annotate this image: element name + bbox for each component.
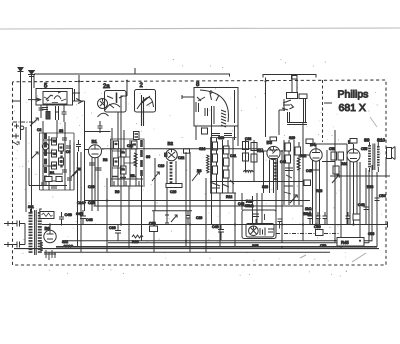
wire x112 up [111,128,113,138]
trimmer cap under unit 5 [42,105,48,111]
nested frame right [368,170,370,243]
svg-text:C40: C40 [212,225,219,229]
B5 top lead [353,144,355,149]
volume pot R21 [165,215,177,223]
aerial drop x79 [76,75,82,104]
oscillator coil frame [167,161,176,187]
svg-text:S13: S13 [218,136,224,140]
tube B3 envelope [267,146,280,159]
lamp box on transformer [40,212,54,219]
bandfilter rail a [42,132,44,190]
coil unit 5 inner box [43,92,67,105]
output transformer primary winding [368,145,371,168]
power transformer primary winding [29,212,33,253]
IF1 bottom dark caps [112,177,136,178]
IF1 cluster rail c [123,140,125,186]
misc component value labels [28,128,374,248]
box C51 [316,230,324,236]
magic eye box [242,210,276,239]
IF1 dark bars [115,144,137,170]
signal line y148.5 [102,148,263,150]
eye upper components [253,214,265,223]
cathode bar unit 2 [142,95,144,126]
AF cluster rail c [293,140,295,205]
svg-text:C6: C6 [66,150,70,154]
trimmer arc in unit 5 [54,92,61,100]
svg-text:C39: C39 [196,216,202,220]
switch cross unit 8 [197,90,213,101]
oscillator drum circle [166,149,178,161]
IF1 cluster rail d [129,140,131,186]
svg-text:C53: C53 [320,244,326,248]
grid bars unit 8 [196,102,208,116]
svg-text:C16: C16 [88,185,94,189]
wire x262 [261,193,263,224]
IF2 top caps [212,134,232,136]
svg-text:40kΩ: 40kΩ [245,204,254,208]
cap pair bottom bandfilter [41,183,57,188]
wire x65 up [64,122,66,138]
svg-text:C11: C11 [127,144,133,148]
rectifier tube B6 envelope [44,230,56,242]
power transformer secondary winding [38,212,42,253]
IF link line y181.5 [211,181,311,183]
bus HT y224.5 [42,222,388,228]
coil unit 2 outline [135,90,156,113]
svg-text:C33: C33 [245,137,251,141]
wire from unit 5 left [28,98,41,101]
tube B4 envelope [310,149,322,161]
svg-text:S25: S25 [252,244,258,248]
wire eye top lead [265,78,267,138]
svg-text:C54: C54 [379,194,386,198]
svg-text:B1: B1 [92,139,98,144]
IF2 cluster rail e [232,138,234,193]
coil unit 5 outer box [36,89,73,106]
osc rail right2 [185,152,187,206]
mains link bracket [24,224,26,245]
speaker terminal box [292,76,298,80]
trimmer arrow x76 [73,168,80,176]
tube B3 electrodes [269,146,279,159]
AF component boxes [285,143,301,163]
cap C48 [364,202,369,216]
IF2 can top [211,138,237,194]
cap C9 [76,140,81,152]
wire x377b [376,172,378,247]
tube B1 electrodes [91,145,100,154]
diode glyphs detector [282,99,294,111]
bandfilter mid coil dark [60,151,62,168]
coupling rail2 [340,160,342,190]
svg-text:C48: C48 [358,203,365,207]
svg-text:C56: C56 [368,232,374,236]
electrolytic C17 [80,210,86,225]
bus screen y240.7 [64,165,372,241]
wire x57 up [56,120,58,138]
chassis dashed border [13,80,387,265]
AF unit box [279,110,285,135]
wire x335b [334,190,336,241]
resistor R45 box [337,238,364,247]
bandfilter can bottom [40,189,75,191]
wire x190b [189,211,191,252]
IF2 component boxes [213,142,230,178]
osc rail left [154,158,156,211]
svg-text:2a: 2a [103,84,110,90]
svg-text:C47: C47 [306,169,312,173]
wire x107 [106,178,108,252]
tuning cap C1 circle [42,143,48,149]
switch contacts k2 [14,124,24,130]
bandfilter rail d [69,140,71,190]
wire x366 [365,168,367,225]
wire x360 [359,162,361,241]
resistor R20 zigzag [132,235,143,238]
wire x211 drop [211,193,213,225]
coupling trimmer arrow [332,175,339,183]
dash-dot linkage to eye [276,233,340,235]
wire x220 drop [219,193,221,247]
svg-text:681 X: 681 X [339,102,366,114]
bandfilter rail c [64,138,66,190]
AF zigzag resistor R27 [297,158,300,170]
small box C65 [350,139,357,144]
lamp box zigzag [42,213,53,217]
svg-text:R6: R6 [115,190,119,194]
mains plug lower terminal [4,242,25,248]
detector coupling cap C62 [287,93,298,99]
wire x252.5 [252,196,254,224]
bus heater y252.3 [44,251,330,253]
AF volume pot arrow [290,195,297,203]
wire x43 up [42,121,44,132]
cap C10 [98,121,103,133]
wire y210.8 [152,210,192,212]
wire drop x297 [296,75,298,93]
IF2 cluster rail d [227,140,229,193]
osc grid box [184,149,190,153]
IF2 bottom glyphs [210,180,236,193]
label row boxes under bandfilter [45,177,62,182]
svg-text:C19: C19 [158,164,164,168]
svg-text:C49: C49 [65,212,73,217]
wire: aerial coupling lead [33,74,35,88]
wire x235 [234,193,236,247]
bandfilter cap ticks [62,138,72,180]
tube 2a wedge [100,99,105,107]
svg-text:C55: C55 [361,147,367,151]
svg-text:S18: S18 [262,185,268,189]
padder capacitor under unit 5 [39,105,44,118]
svg-text:C36: C36 [109,226,116,230]
svg-text:R5: R5 [130,174,134,178]
coupling box bar [135,134,139,137]
tube B4 electrodes [312,149,320,158]
wire x341b [340,190,342,247]
svg-text:C15: C15 [88,201,95,205]
AF small box right [304,180,311,186]
coupling box above IF1 [134,132,140,140]
coil S17 scallops [244,171,254,173]
bus y242.7 [108,242,369,244]
padder box under osc [166,184,182,188]
svg-text:S6: S6 [146,155,150,159]
AF unit bars [288,112,290,123]
smoothing choke S12 [64,245,74,247]
coil S1 under unit 5 [46,112,50,120]
antenna A2 head [29,71,35,75]
grid cap lead B1 [85,132,89,212]
wire x141.5 [141,176,143,241]
wire x242 [241,193,243,210]
cap C36 [115,225,121,242]
bandfilter rail b [48,136,50,190]
speaker [387,147,396,160]
bus ground heavy [56,246,377,248]
cap C3 under unit 5 [62,105,67,122]
wire x196 [195,126,197,140]
heater comb [44,250,56,260]
coil hatch unit 8 [221,110,226,127]
wire x77.5 [77,152,79,247]
wire x238 drop [237,126,239,146]
wire x257 [256,193,258,224]
small box C64 [306,139,313,144]
coupling cluster boxes [331,152,344,174]
rail x245 [245,140,247,172]
oscillator drum hub [168,149,175,158]
svg-text:R3: R3 [103,158,107,162]
trimmer boxes column [52,138,64,169]
svg-text:R38: R38 [367,185,373,189]
bandfilter can outline [40,133,75,190]
band switch arrow mid [31,152,38,159]
mains plug upper terminal [4,221,25,227]
oscillator unit 8 outer box [194,88,238,127]
screen lead B1 [102,148,105,150]
svg-text:S19: S19 [289,136,295,140]
extra switch glyphs unit 5 [44,97,66,103]
svg-text:S3: S3 [59,129,63,133]
wire x303 [302,122,304,241]
box under unit 8 [202,128,208,134]
svg-text:R45: R45 [341,240,349,245]
unit 8 inner right edge [234,90,236,123]
IF1 bottom bars [111,179,143,186]
bandfilter extra dark bars [53,142,63,166]
tube top-view arc unit 8 [200,90,228,122]
svg-text:C41: C41 [280,160,286,164]
tube B5 envelope [347,149,360,162]
bus AVC2 y206 [94,205,304,207]
cap C40 [218,225,224,241]
AF cluster rail b [288,140,290,205]
rail x254 [253,140,255,182]
osc resistor zigzag [207,155,210,173]
wire x186b [185,206,187,247]
right link wire [330,159,390,176]
AF top right box [299,94,307,99]
bandfilter coil S2 dark column [44,133,47,180]
IF1 dark coil [140,140,143,176]
svg-text:S10: S10 [377,138,386,143]
svg-text:S9: S9 [364,138,370,143]
junction dots [32,201,361,247]
rectifier top lead [49,225,51,231]
IF1 mid links [112,151,136,168]
svg-text:R22: R22 [300,154,306,158]
eye inner box [246,224,274,238]
svg-text:C26: C26 [170,190,176,194]
svg-text:C45: C45 [76,212,83,216]
svg-text:R12: R12 [226,195,232,199]
tube 2a base arc [98,113,109,117]
right short links [310,162,335,171]
wire x81 [80,152,82,252]
filament winding [40,242,43,252]
svg-text:R31: R31 [341,162,347,166]
tube B5 electrodes [349,149,358,159]
B1 cathode caps [89,163,102,170]
tube B4 pins [313,160,320,225]
column boxes left of B3 [243,142,258,163]
IF1 can outline [111,139,145,187]
IF1 cluster rail b [117,138,119,186]
trimmer arrow C23 [152,172,159,181]
svg-text:1kΩ: 1kΩ [305,207,312,211]
wire: speaker bracket [263,75,316,78]
output transformer secondary winding [377,146,380,167]
oscillator coil S7 hatched [170,162,173,184]
tube B3 top box [270,137,277,141]
cap C54 [375,193,380,207]
rectifier anodes [47,231,54,239]
wire stub left border [13,100,21,102]
svg-text:2: 2 [140,83,144,89]
contact bar unit 2a [116,93,118,104]
link bars bandfilter [43,140,63,181]
svg-text:R29: R29 [246,200,253,204]
coil unit 2a outline [105,91,127,113]
svg-text:B2: B2 [168,141,174,146]
IF2 cluster rail a [211,138,213,193]
antenna A2 [28,75,35,213]
dashed partition line left of Philips label [322,80,324,142]
switch contact in unit 5 [46,95,53,101]
eye cathode bars [260,228,274,236]
osc rail right [189,152,191,211]
switch tick unit 2a [107,96,123,99]
switch arrow k1 [30,118,38,126]
svg-text:R28: R28 [316,189,322,193]
B3 anode lead [280,150,283,152]
node dot x79 border [78,80,80,82]
node dot on border right [264,80,266,82]
tube 2a top view [98,99,108,109]
svg-text:C2: C2 [37,128,41,132]
tube B1 envelope [89,145,102,158]
wire x129 [128,186,130,247]
box C38 [150,226,158,232]
cap x325 [323,212,328,225]
bus ground heavy 2 [14,248,379,250]
IF1 zigzag resistor [134,153,137,167]
svg-text:C24: C24 [199,147,205,151]
tube B3 pins [270,159,278,193]
AF cluster rail d [298,142,300,205]
tube B5 pins [350,161,357,225]
IF2 cluster rail c [222,140,224,193]
svg-text:S12: S12 [62,240,68,244]
svg-text:R20: R20 [132,240,139,244]
B3 grid lead [264,151,267,193]
svg-text:C14: C14 [77,201,84,205]
wire x167 [166,187,168,215]
svg-text:C50: C50 [314,225,321,229]
trimmer arrow C25 [192,172,199,181]
wire x211.5 link [211,124,213,140]
cap C49 [59,212,64,226]
wire unit 8 left [182,95,194,99]
tube B1 pin leads [92,157,98,211]
cap x318 [316,212,321,225]
IF1 component boxes [114,141,138,174]
svg-text:R1: R1 [50,171,54,175]
wire x276 [275,160,277,234]
svg-text:C52: C52 [329,147,335,151]
wire x327 [326,150,328,225]
bandfilter rail e [73,142,75,190]
wire x121 [120,103,122,225]
eye tube circle [249,226,259,236]
antenna A1 head [18,68,23,72]
node top junction tick [134,68,136,74]
IF3 dark coil under B3 [274,162,277,180]
line pair under unit 5 [56,106,59,120]
svg-text:C46: C46 [86,218,93,222]
wire x206 [205,178,207,252]
wire drop x292 [291,75,293,93]
IF1 cluster rail a [111,138,113,186]
B4 grid lead [306,154,310,156]
wire: top HT rail [34,74,230,77]
AF unit double wire [287,123,307,125]
wire x234.5 drop [234,126,236,140]
tube arc unit 2a [105,104,120,110]
wire drop from border x127 [126,81,128,96]
AVC line [29,168,67,186]
svg-text:C31: C31 [230,154,236,158]
wave switch linkage dash-dot [13,121,36,123]
svg-text:C43: C43 [238,202,244,206]
wire x347 [346,144,348,225]
svg-text:R8: R8 [197,169,201,173]
coupling bars unit 8 [212,106,215,124]
tube top-view arc unit 2 [137,96,154,109]
svg-text:50kΩ: 50kΩ [303,212,312,216]
leader dash for label [324,102,332,104]
cap C39 [186,211,191,224]
antenna A1 [18,72,24,141]
wire x124 up [123,130,125,140]
svg-text:C22: C22 [178,156,184,160]
caps row right C50 [308,211,313,225]
bus AVC y200.5 [85,200,310,202]
svg-text:Philips: Philips [338,89,369,101]
switch marks left border [13,134,19,146]
B4 top lead [316,144,347,149]
